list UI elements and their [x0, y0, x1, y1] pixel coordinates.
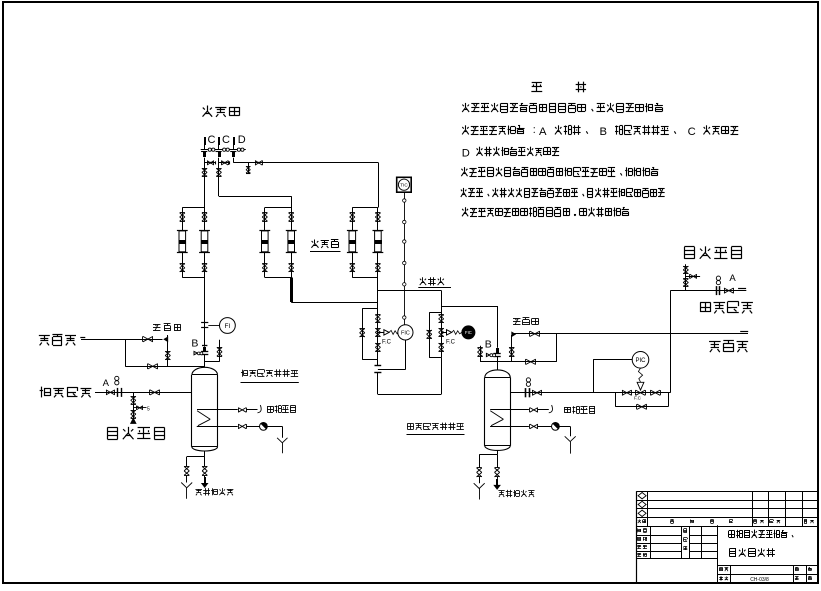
svg-text:CH-03/8: CH-03/8 — [750, 577, 769, 583]
svg-text:F.C: F.C — [634, 396, 642, 401]
svg-text:A: A — [729, 273, 736, 284]
svg-text:B: B — [485, 338, 492, 350]
svg-text:PIC: PIC — [635, 358, 646, 364]
svg-text:A: A — [103, 378, 110, 389]
svg-text:C: C — [208, 134, 216, 146]
svg-text:A: A — [539, 126, 547, 138]
svg-text:B: B — [191, 338, 198, 350]
svg-text:D: D — [238, 134, 246, 146]
svg-text:FI: FI — [225, 323, 231, 330]
svg-text:B: B — [600, 126, 607, 138]
svg-text:C: C — [222, 134, 230, 146]
svg-text:F.C: F.C — [446, 339, 456, 345]
svg-text:FIC: FIC — [401, 331, 410, 337]
svg-text:D: D — [462, 147, 470, 159]
svg-text:FIC: FIC — [465, 330, 472, 335]
svg-text:TIC: TIC — [400, 183, 408, 188]
svg-text:C: C — [688, 126, 696, 138]
svg-text:F.C: F.C — [382, 339, 392, 345]
svg-text:5: 5 — [147, 406, 150, 412]
